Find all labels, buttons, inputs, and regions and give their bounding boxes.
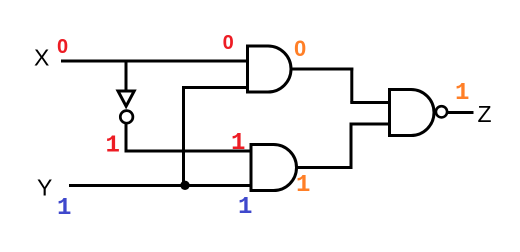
svg-text:1: 1 [57, 195, 71, 222]
wire into NAND bottom input [350, 123, 391, 126]
wire bottom AND output [297, 166, 353, 169]
wire Y to bottom AND bottom input [69, 184, 252, 187]
wire inverter to bottom AND top input [125, 150, 253, 153]
svg-text:X: X [34, 45, 49, 71]
svg-text:0: 0 [57, 36, 68, 58]
AND gate G2 (bottom) [251, 145, 297, 191]
svg-text:0: 0 [294, 36, 306, 61]
svg-text:1: 1 [106, 133, 120, 160]
wire down to NAND top input [350, 68, 353, 103]
inverter bubble [120, 111, 133, 124]
NAND gate G3 [390, 90, 435, 136]
AND gate G1 (top) [248, 46, 292, 92]
svg-text:0: 0 [223, 32, 234, 54]
wire to top AND bottom input [182, 86, 248, 89]
svg-text:1: 1 [238, 194, 252, 221]
inverter U1 (NOT, pointing down) [118, 91, 134, 106]
svg-text:1: 1 [231, 130, 245, 157]
wire junction up [182, 88, 185, 186]
wire NAND output to Z [447, 111, 474, 114]
svg-text:1: 1 [455, 80, 469, 107]
wire up to NAND bottom input [350, 124, 353, 169]
junction node on Y wire [180, 181, 189, 190]
svg-text:Y: Y [37, 175, 52, 201]
wire into NAND top input [350, 101, 390, 104]
svg-text:1: 1 [296, 172, 310, 199]
wire top AND output [291, 68, 353, 71]
svg-text:Z: Z [478, 101, 492, 127]
wire inverter output down [125, 124, 128, 152]
wire X to top AND input [61, 60, 248, 63]
NAND bubble [436, 106, 447, 117]
wire stub down to inverter [125, 61, 128, 90]
